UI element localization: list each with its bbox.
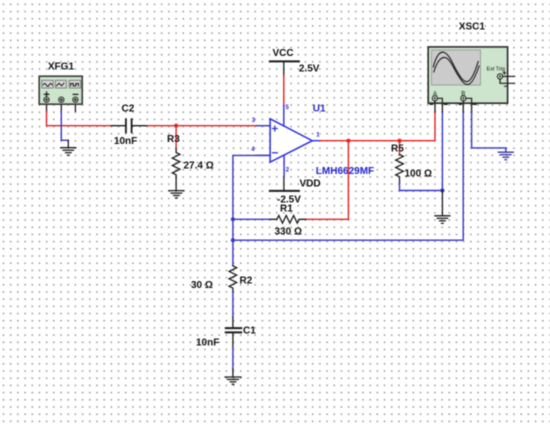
svg-text:XSC1: XSC1 (459, 22, 486, 33)
svg-text:VCC: VCC (273, 48, 294, 59)
ground (C1) (225, 377, 241, 384)
wire: XFG1 common to ground (blue) (61, 112, 68, 141)
minus mark (73, 93, 78, 95)
resistor R5 (399, 141, 401, 155)
wire: C2 to opamp + input (red) (146, 125, 257, 127)
power VDD (270, 190, 299, 192)
svg-text:Ext Trig: Ext Trig (487, 67, 505, 73)
wire: R5 bottom to ground line (blue) (400, 183, 443, 191)
wire: XFG1 + terminal stub (black) (46, 102, 48, 112)
wire: scope B- to ground (blue) (472, 112, 506, 152)
svg-text:2.5V: 2.5V (299, 64, 320, 75)
pin stubs below scope (black) (435, 103, 472, 112)
node: output junction at feedback (red dot) (346, 139, 350, 143)
svg-text:VDD: VDD (300, 178, 321, 189)
wire: scope A- (blue) (441, 112, 443, 191)
capacitor C2 (111, 119, 146, 132)
op-amp U1 (257, 106, 320, 177)
node: feedback junction at R1 (blue dot) (231, 217, 235, 221)
wire: U1 output (red) to scope A (320, 112, 435, 141)
pin numbers (251, 105, 320, 173)
svg-text:R2: R2 (240, 276, 253, 287)
wire: feedback to scope B (blue) (233, 112, 463, 240)
node: junction R5/ground (blue dot) (440, 188, 444, 192)
wire: XFG1 - terminal stub (black, unconnected) (74, 102, 76, 112)
wire: junction to ground (black) (441, 191, 443, 216)
square icon (71, 84, 79, 86)
resistor R2 (229, 266, 237, 293)
svg-text:100 Ω: 100 Ω (405, 169, 432, 180)
scope waveform (433, 52, 478, 81)
svg-text:R3: R3 (167, 134, 180, 145)
wire: feedback red from R1 right up to output (306, 141, 349, 220)
plus mark (44, 92, 49, 97)
resistor R3 (175, 126, 177, 149)
resistor R1 (233, 218, 270, 220)
capacitor C1 (226, 328, 241, 332)
ground (scope B-) (498, 152, 513, 160)
buttons (42, 80, 81, 88)
svg-text:C1: C1 (243, 326, 256, 337)
triangle icon (57, 83, 64, 86)
svg-text:LMH6629MF: LMH6629MF (316, 166, 374, 177)
wire: C1 to ground (blue) (232, 332, 234, 347)
ground (scope A-) (435, 216, 450, 224)
svg-text:R5: R5 (391, 144, 404, 155)
node: feedback junction to scope B (blue dot) (231, 238, 235, 242)
power VCC (270, 60, 299, 62)
ground (XFG1) (61, 140, 76, 155)
ground (R3) (169, 191, 184, 198)
wire: R2 to C1 (blue) (232, 293, 234, 318)
wire: VCC to U1 pin5 (red) (283, 76, 285, 106)
bottom pin stubs (435, 101, 464, 103)
wire: XFG1 + to C2 (red) (47, 112, 112, 126)
svg-text:U1: U1 (313, 104, 326, 115)
svg-text:XFG1: XFG1 (48, 62, 75, 73)
svg-text:R1: R1 (280, 204, 293, 215)
svg-text:27.4 Ω: 27.4 Ω (184, 161, 214, 172)
terminals (44, 97, 78, 102)
svg-text:C2: C2 (122, 104, 135, 115)
svg-text:10nF: 10nF (114, 136, 137, 147)
svg-text:30 Ω: 30 Ω (191, 280, 213, 291)
node: junction input net at R3 (red dot) (174, 124, 178, 128)
svg-text:330 Ω: 330 Ω (275, 227, 302, 238)
internal pin wires (438, 98, 443, 103)
sine icon (43, 83, 52, 86)
wire: XFG1 common terminal stub (black) (60, 102, 62, 112)
wire: - input feedback (blue) (233, 155, 270, 265)
node: output junction at R5 (red dot) (397, 139, 401, 143)
svg-text:10nF: 10nF (196, 338, 219, 349)
